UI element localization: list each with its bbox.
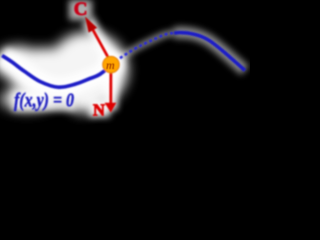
- svg-text:f(x,y) = 0: f(x,y) = 0: [14, 91, 74, 112]
- constraint force arrow C shaft: [93, 30, 112, 64]
- artwork layer: [2, 0, 245, 120]
- text-N bridge blob: [69, 91, 99, 113]
- svg-text:N: N: [93, 101, 105, 120]
- constraint force arrowhead: [85, 17, 97, 33]
- gravity force arrow N shaft: [109, 64, 112, 105]
- wire : dashed middle section: [112, 33, 175, 65]
- gravity force arrowhead: [105, 103, 117, 113]
- arrow C halo: [88, 20, 111, 63]
- arrow N halo: [104, 64, 117, 110]
- text-curve bridge blob: [17, 75, 73, 101]
- left edge glow: [0, 46, 42, 80]
- svg-text:C: C: [74, 0, 88, 20]
- C label halo: [69, 0, 92, 20]
- wire halo dashed section: [112, 33, 175, 65]
- wire halo right: [174, 33, 245, 71]
- wire : solid right section: [174, 33, 245, 71]
- central glow blob: [48, 32, 128, 108]
- bead m: [103, 56, 120, 73]
- equation halo: [12, 91, 76, 111]
- wire halo left: [2, 56, 112, 88]
- wire f(x,y)=0 : solid left section: [2, 56, 112, 88]
- svg-text:m: m: [106, 58, 115, 72]
- bead label m: [106, 58, 115, 72]
- N label halo: [89, 99, 110, 117]
- diagram: bead on a frictionless wire with constraint force: [0, 0, 250, 178]
- text left faint glow: [0, 87, 54, 111]
- left glow blob: [9, 48, 81, 100]
- bead halo: [99, 52, 125, 78]
- white glow background layer: [0, 32, 128, 113]
